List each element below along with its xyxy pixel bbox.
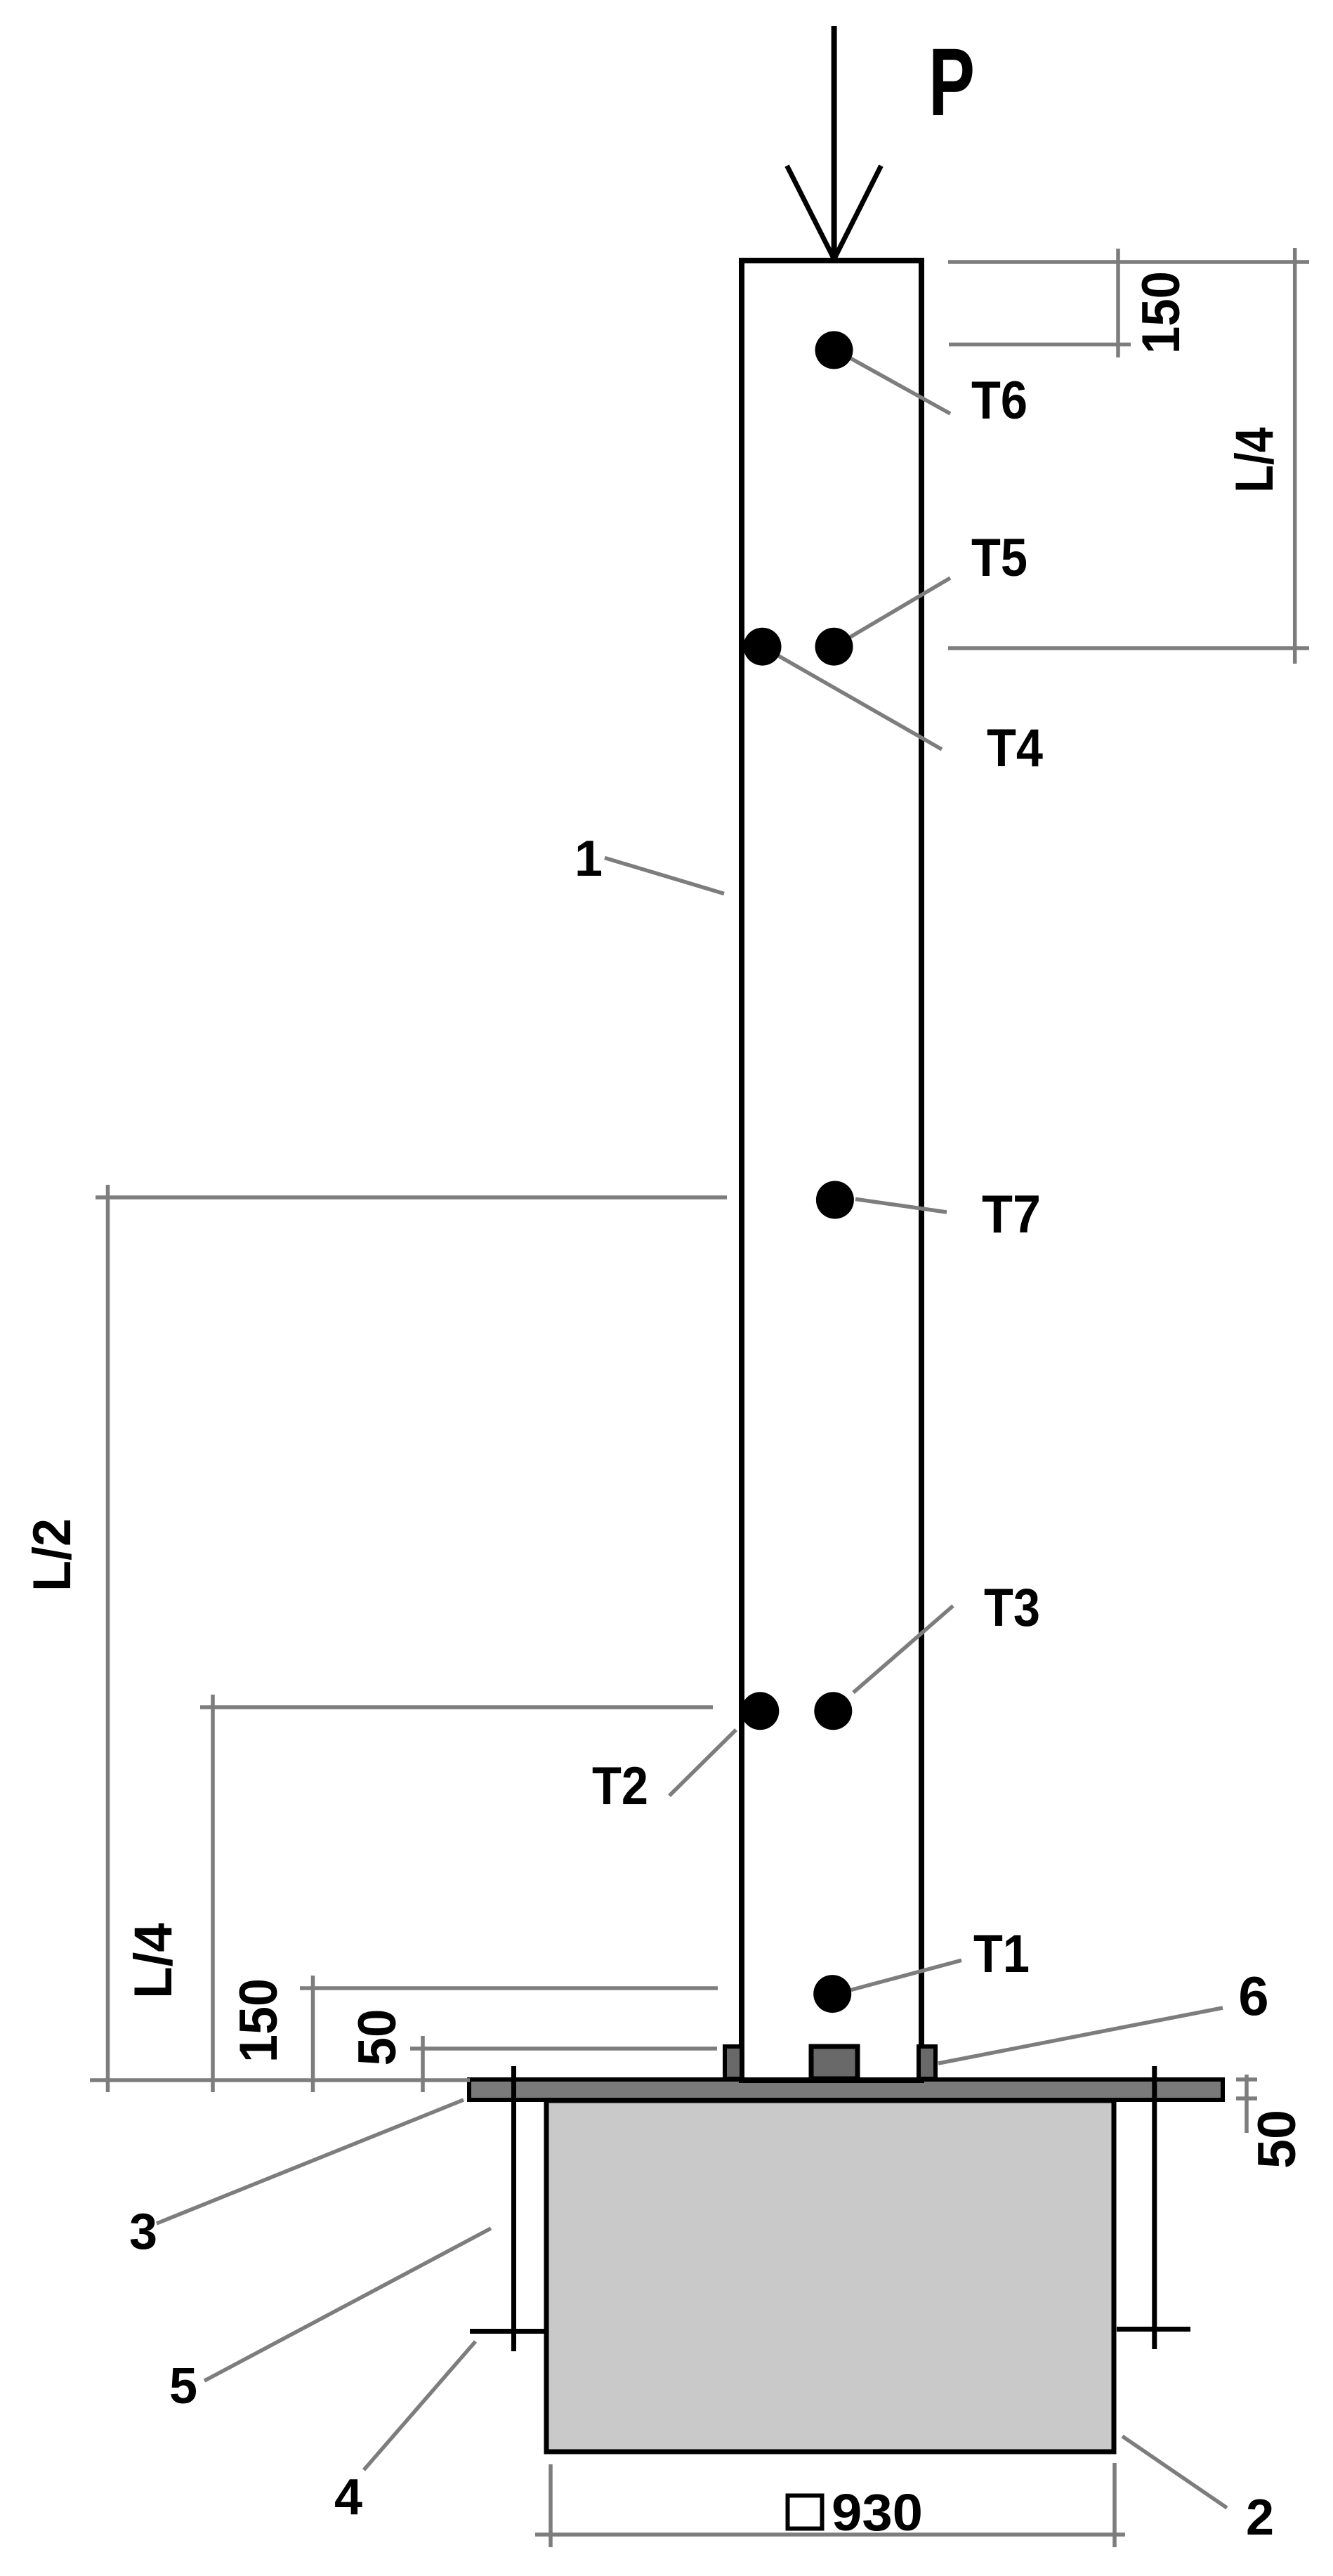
right clamp tab [919, 2046, 935, 2079]
dimension 150 vertical (top right) [1116, 249, 1120, 357]
dimension line top of column (right) [948, 260, 1309, 264]
leader 6 [938, 2008, 1223, 2063]
extension tick right (930) [1112, 2463, 1117, 2547]
leader T5 [834, 578, 951, 647]
left clamp tab at column base [725, 2046, 742, 2079]
dimension line T4/T5 level (L/4) [948, 646, 1309, 650]
svg-text:930: 930 [832, 2483, 923, 2542]
svg-text:50: 50 [348, 2009, 407, 2066]
svg-text:150: 150 [229, 1978, 289, 2063]
dimension line 50 level (left) [410, 2046, 717, 2051]
dimension 50 plate thickness (right) [1245, 2075, 1249, 2133]
leader 2 [1122, 2436, 1227, 2508]
center clamp tab (part 6) [811, 2046, 858, 2079]
svg-text:150: 150 [1131, 271, 1191, 354]
thermocouple dot T6 [815, 331, 853, 369]
svg-text:P: P [928, 29, 975, 136]
left threaded rod (part 5) [511, 2066, 516, 2351]
load arrow P shaft [832, 26, 837, 257]
column (part 1) [742, 261, 921, 2080]
left rod washer (part 4) [470, 2329, 547, 2334]
base plate (part 3) [469, 2079, 1223, 2100]
svg-text:T7: T7 [982, 1185, 1041, 1244]
thermocouple dot T2 (left face) [741, 1692, 779, 1730]
svg-text:T2: T2 [592, 1756, 648, 1816]
svg-text:T3: T3 [984, 1578, 1040, 1638]
load arrow P barbs [787, 166, 834, 259]
dimension L/2 vertical (far left) [106, 1185, 110, 2092]
thermocouple dot T4 (left face) [744, 628, 782, 666]
thermocouple dot T1 [813, 1975, 851, 2013]
thermocouple dot T7 [816, 1181, 854, 1219]
svg-text:L/4: L/4 [124, 1923, 183, 1999]
right rod washer [1117, 2327, 1190, 2332]
svg-text:1: 1 [574, 831, 603, 887]
leader T6 [836, 350, 950, 414]
thermocouple dot T5 [815, 628, 853, 666]
svg-text:T4: T4 [987, 718, 1043, 778]
svg-text:5: 5 [169, 2358, 197, 2414]
leader 3 [157, 2100, 464, 2223]
dimension line 150 level (left, at T1) [300, 1986, 718, 1990]
svg-text:T1: T1 [973, 1924, 1030, 1984]
leader T4 [763, 647, 943, 749]
svg-text:6: 6 [1238, 1965, 1268, 2027]
svg-text:4: 4 [334, 2469, 362, 2525]
dimension L/4 vertical (left) [211, 1695, 215, 2092]
dimension line 930 (bottom) [535, 2532, 1125, 2537]
svg-text:L/2: L/2 [22, 1518, 82, 1591]
svg-text:3: 3 [129, 2204, 157, 2260]
dimension baseline at plate top (left) [90, 2078, 470, 2082]
dimension 150 vertical (left) [311, 1976, 315, 2092]
svg-text:L/4: L/4 [1225, 428, 1285, 493]
right threaded rod [1152, 2066, 1157, 2349]
leader T7 [855, 1199, 947, 1212]
leader 1 [605, 858, 724, 894]
leader 5 [204, 2228, 491, 2381]
svg-text:T6: T6 [971, 371, 1027, 431]
thermocouple dot T3 [814, 1692, 852, 1730]
leader 4 [364, 2341, 475, 2470]
leader T1 [851, 1960, 961, 1990]
svg-text:T5: T5 [971, 528, 1027, 588]
dimension 50 vertical (left) [421, 2036, 425, 2092]
extension tick left (930) [549, 2464, 553, 2547]
dimension line L/4 level (left, at T2) [200, 1705, 713, 1709]
dimension L/4 vertical (top right) [1293, 248, 1297, 664]
svg-text:50: 50 [1247, 2110, 1307, 2169]
foundation block (part 2) [546, 2101, 1114, 2452]
svg-text:2: 2 [1246, 2490, 1274, 2546]
leader T2 [669, 1730, 736, 1796]
leader T3 [853, 1606, 953, 1693]
dimension line T6 level [949, 343, 1131, 347]
square symbol of 930 [788, 2496, 822, 2529]
dimension line L/2 level (left, at T7) [96, 1195, 727, 1200]
